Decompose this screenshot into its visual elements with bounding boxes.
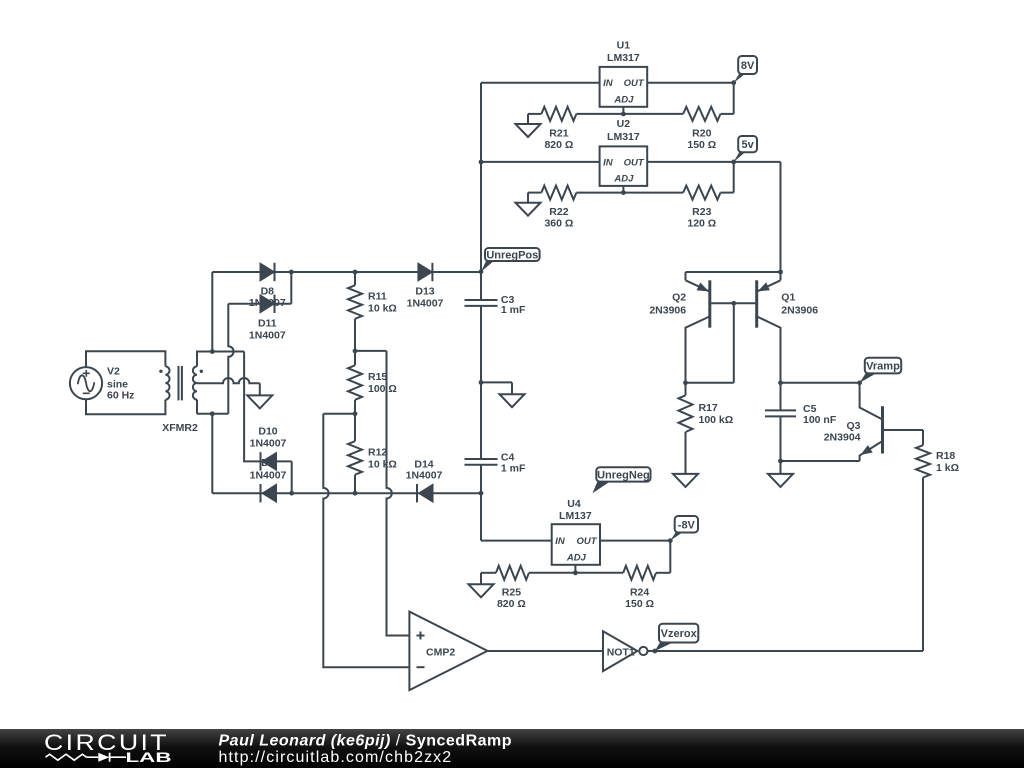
svg-text:ADJ: ADJ xyxy=(613,94,634,105)
svg-text:U2: U2 xyxy=(617,118,631,130)
svg-text:R18: R18 xyxy=(936,450,955,462)
svg-text:OUT: OUT xyxy=(624,157,645,168)
svg-text:OUT: OUT xyxy=(624,78,645,89)
svg-text:R24: R24 xyxy=(630,586,649,598)
svg-text:UnregNeg: UnregNeg xyxy=(597,469,650,481)
svg-text:R22: R22 xyxy=(549,206,568,218)
svg-text:1 kΩ: 1 kΩ xyxy=(936,462,959,474)
svg-text:360 Ω: 360 Ω xyxy=(544,218,573,230)
svg-text:Q1: Q1 xyxy=(781,292,795,304)
svg-text:U4: U4 xyxy=(567,498,581,510)
svg-text:-8V: -8V xyxy=(678,519,696,531)
svg-text:LAB: LAB xyxy=(126,750,172,765)
svg-text:8V: 8V xyxy=(741,60,755,72)
svg-text:R12: R12 xyxy=(368,447,387,459)
svg-text:LM317: LM317 xyxy=(607,131,640,143)
svg-text:V2: V2 xyxy=(107,366,120,378)
svg-text:D8: D8 xyxy=(261,286,275,298)
svg-text:120 Ω: 120 Ω xyxy=(687,218,716,230)
svg-text:150 Ω: 150 Ω xyxy=(625,598,654,610)
svg-text:100 Ω: 100 Ω xyxy=(368,383,397,395)
svg-text:D10: D10 xyxy=(258,426,277,438)
svg-text:2N3904: 2N3904 xyxy=(824,432,861,444)
svg-text:R23: R23 xyxy=(692,206,711,218)
svg-text:C5: C5 xyxy=(803,403,817,415)
svg-text:Q2: Q2 xyxy=(672,292,686,304)
svg-text:100 kΩ: 100 kΩ xyxy=(699,414,734,426)
svg-text:UnregPos: UnregPos xyxy=(486,250,538,262)
svg-text:1N4007: 1N4007 xyxy=(249,329,286,341)
svg-text:1N4007: 1N4007 xyxy=(407,298,444,310)
svg-text:D11: D11 xyxy=(258,317,277,329)
svg-text:LM137: LM137 xyxy=(559,510,592,522)
svg-text:OUT: OUT xyxy=(576,536,597,547)
svg-text:Q3: Q3 xyxy=(846,420,860,432)
svg-text:R25: R25 xyxy=(502,586,521,598)
svg-text:2N3906: 2N3906 xyxy=(781,304,818,316)
svg-text:10 kΩ: 10 kΩ xyxy=(368,303,397,315)
svg-text:LM317: LM317 xyxy=(607,52,640,64)
svg-text:150 Ω: 150 Ω xyxy=(687,139,716,151)
svg-text:5v: 5v xyxy=(741,139,754,151)
svg-text:R15: R15 xyxy=(368,371,387,383)
svg-text:IN: IN xyxy=(603,157,614,168)
svg-text:http://circuitlab.com/chb2zx2: http://circuitlab.com/chb2zx2 xyxy=(219,749,453,766)
svg-text:NOT1: NOT1 xyxy=(607,646,635,658)
svg-text:1N4007: 1N4007 xyxy=(250,438,287,450)
svg-text:U1: U1 xyxy=(617,40,631,52)
svg-text:D13: D13 xyxy=(415,286,434,298)
svg-text:1 mF: 1 mF xyxy=(501,304,526,316)
svg-text:XFMR2: XFMR2 xyxy=(162,422,198,434)
svg-text:Vzerox: Vzerox xyxy=(661,628,698,640)
svg-text:R11: R11 xyxy=(368,291,387,303)
svg-text:820 Ω: 820 Ω xyxy=(544,139,573,151)
svg-text:R20: R20 xyxy=(692,128,711,140)
svg-text:R17: R17 xyxy=(699,402,718,414)
svg-text:10 kΩ: 10 kΩ xyxy=(368,458,397,470)
svg-text:ADJ: ADJ xyxy=(613,173,634,184)
svg-text:Paul Leonard (ke6pij) / Synced: Paul Leonard (ke6pij) / SyncedRamp xyxy=(219,733,513,750)
svg-text:1N4007: 1N4007 xyxy=(406,470,443,482)
svg-text:820 Ω: 820 Ω xyxy=(497,598,526,610)
svg-text:CMP2: CMP2 xyxy=(426,646,455,658)
svg-text:60 Hz: 60 Hz xyxy=(107,390,134,402)
svg-text:IN: IN xyxy=(555,536,566,547)
svg-text:Vramp: Vramp xyxy=(866,361,900,373)
svg-text:1N4007: 1N4007 xyxy=(250,470,287,482)
svg-text:1 mF: 1 mF xyxy=(501,462,526,474)
svg-text:2N3906: 2N3906 xyxy=(649,304,686,316)
svg-text:100 nF: 100 nF xyxy=(803,414,837,426)
svg-text:ADJ: ADJ xyxy=(566,552,587,563)
svg-text:IN: IN xyxy=(603,78,614,89)
svg-text:R21: R21 xyxy=(549,128,568,140)
